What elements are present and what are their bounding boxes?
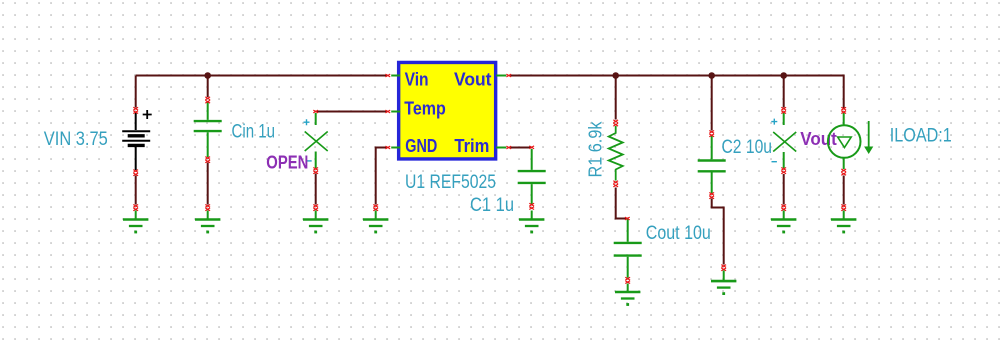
- minus mark Vout jumper: [772, 161, 777, 163]
- svg-text:VIN 3.75: VIN 3.75: [44, 129, 108, 150]
- node junction at Vout jumper: [780, 72, 787, 79]
- svg-text:C1 1u: C1 1u: [470, 195, 514, 216]
- jumper J2 Vout: [773, 113, 796, 168]
- capacitor C1: [518, 149, 546, 204]
- pin marks U1 right: [506, 74, 511, 77]
- pin marks C1: [529, 146, 534, 149]
- svg-text:C2 10u: C2 10u: [722, 137, 773, 158]
- pin marks battery: [133, 107, 138, 110]
- wire GND pin down: [376, 148, 387, 205]
- capacitor C2: [698, 136, 726, 193]
- svg-text:U1 REF5025: U1 REF5025: [405, 172, 496, 193]
- ground ILOAD: [831, 211, 856, 234]
- pin marks ILOAD: [841, 107, 846, 110]
- plus mark Vout jumper: [771, 119, 777, 125]
- minus mark OPEN: [306, 160, 311, 162]
- voltage source VIN 3.75 battery: [122, 110, 152, 170]
- plus mark OPEN: [304, 119, 310, 125]
- svg-text:Cout 10u: Cout 10u: [646, 223, 711, 244]
- ground U1 GND: [363, 211, 388, 234]
- wire R1 top: [615, 76, 617, 120]
- current source ILOAD: [828, 113, 873, 169]
- wire Temp to OPEN jumper: [316, 111, 387, 113]
- ground Cout: [615, 284, 640, 306]
- wire OPEN jumper bottom: [315, 174, 317, 205]
- svg-text:Vout: Vout: [454, 70, 492, 90]
- jumper J1 OPEN: [305, 113, 328, 168]
- svg-text:Cin 1u: Cin 1u: [232, 121, 276, 142]
- wire ILOAD bottom: [843, 176, 845, 205]
- svg-text:Vin: Vin: [405, 70, 429, 90]
- svg-text:R1 6.9k: R1 6.9k: [585, 121, 605, 178]
- wire top main right (Vout pin to ILOAD corner): [510, 76, 844, 109]
- pin marks OPEN jumper: [313, 110, 318, 113]
- capacitor Cin: [194, 102, 222, 157]
- pin marks Cin: [205, 97, 210, 100]
- wire top main left (battery to Vin pin): [136, 75, 387, 77]
- IC U1 REF5025: [391, 62, 506, 159]
- wire battery bottom: [135, 176, 137, 205]
- ground battery: [123, 211, 148, 234]
- ground OPEN jumper: [303, 211, 328, 234]
- ground Cin: [195, 211, 220, 234]
- wire Vout jumper top: [783, 76, 785, 108]
- wire R1 to Cout: [616, 188, 628, 219]
- svg-text:OPEN: OPEN: [266, 152, 308, 172]
- node junction at R1: [612, 72, 619, 79]
- svg-text:GND: GND: [405, 136, 437, 156]
- wire C2 bottom to ground: [712, 199, 724, 265]
- wire C2 top: [711, 76, 713, 131]
- svg-text:Temp: Temp: [404, 99, 446, 119]
- wire Cin top: [207, 76, 209, 98]
- pin marks Vout jumper: [781, 107, 786, 110]
- pin marks C2: [709, 131, 714, 134]
- ground Vout jumper: [771, 211, 796, 234]
- svg-text:ILOAD:1: ILOAD:1: [890, 125, 952, 146]
- wire battery top: [135, 76, 137, 108]
- resistor R1: [609, 126, 623, 181]
- ground C1: [519, 211, 544, 234]
- wire Cin bottom: [207, 163, 209, 205]
- svg-text:Trim: Trim: [454, 136, 489, 156]
- capacitor Cout: [614, 219, 642, 278]
- pin marks Cout: [625, 217, 630, 220]
- node junction at Cin: [204, 72, 211, 79]
- pin marks R1: [613, 120, 618, 123]
- wire Trim to C1: [510, 147, 532, 149]
- wire Vout jumper bottom: [783, 174, 785, 205]
- pin marks U1 left: [385, 74, 390, 77]
- ground C2: [711, 271, 736, 296]
- node junction at C2: [708, 72, 715, 79]
